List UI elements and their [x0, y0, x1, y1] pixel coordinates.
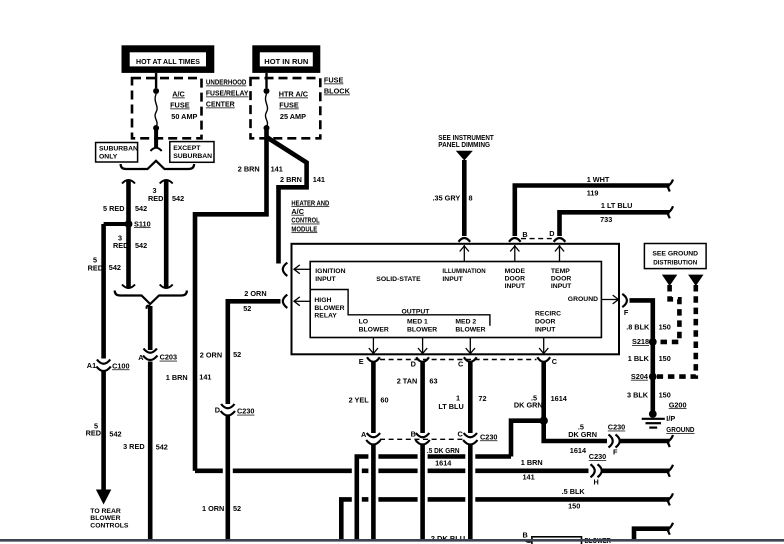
svg-text:1614: 1614 [570, 446, 587, 455]
svg-text:D: D [549, 229, 554, 238]
svg-text:BLOWER: BLOWER [314, 305, 344, 312]
svg-text:1614: 1614 [435, 459, 452, 468]
svg-text:DOOR: DOOR [505, 276, 525, 283]
svg-text:141: 141 [313, 175, 325, 184]
svg-text:.5 BLK: .5 BLK [562, 487, 586, 496]
svg-text:1 BRN: 1 BRN [166, 373, 188, 382]
svg-text:FUSE/RELAY: FUSE/RELAY [206, 89, 249, 98]
svg-text:141: 141 [199, 372, 211, 381]
svg-text:542: 542 [135, 241, 147, 250]
svg-text:A/C: A/C [172, 90, 185, 99]
svg-text:RED: RED [88, 264, 103, 273]
svg-text:RED: RED [113, 241, 128, 250]
svg-text:HTR A/C: HTR A/C [279, 90, 309, 99]
svg-text:B: B [411, 430, 416, 439]
svg-text:52: 52 [243, 304, 251, 313]
svg-text:1 WHT: 1 WHT [587, 175, 610, 184]
svg-text:MODULE: MODULE [291, 224, 317, 233]
svg-text:A: A [361, 430, 367, 439]
svg-text:BLOWER: BLOWER [455, 326, 485, 333]
svg-text:MODE: MODE [505, 268, 526, 275]
svg-text:TO REAR: TO REAR [90, 508, 121, 515]
svg-text:25 AMP: 25 AMP [280, 112, 306, 121]
svg-text:.5 DK GRN: .5 DK GRN [427, 446, 460, 455]
svg-text:5 RED: 5 RED [103, 204, 125, 213]
svg-text:HIGH: HIGH [314, 297, 331, 304]
svg-text:542: 542 [135, 204, 147, 213]
svg-text:BLOWER: BLOWER [359, 326, 389, 333]
svg-text:2 BRN: 2 BRN [280, 175, 302, 184]
svg-text:3 RED: 3 RED [123, 442, 145, 451]
svg-text:BLOCK: BLOCK [324, 87, 351, 96]
svg-text:1 ORN: 1 ORN [202, 504, 224, 513]
svg-text:DOOR: DOOR [551, 276, 571, 283]
svg-text:C203: C203 [160, 353, 177, 362]
svg-text:C230: C230 [589, 452, 606, 461]
svg-text:RECIRC: RECIRC [535, 311, 561, 318]
svg-text:LO: LO [359, 319, 368, 326]
svg-text:A1: A1 [87, 361, 96, 370]
svg-text:HOT IN RUN: HOT IN RUN [264, 57, 308, 66]
svg-text:72: 72 [478, 394, 486, 403]
svg-text:B: B [522, 230, 527, 239]
svg-text:1 BRN: 1 BRN [521, 458, 543, 467]
svg-text:DISTRIBUTION: DISTRIBUTION [653, 260, 697, 267]
svg-text:CONTROLS: CONTROLS [90, 522, 129, 529]
svg-text:C230: C230 [480, 432, 497, 441]
svg-text:RELAY: RELAY [314, 312, 337, 319]
svg-text:150: 150 [659, 390, 671, 399]
svg-text:H: H [594, 477, 599, 486]
svg-text:C: C [552, 357, 558, 366]
svg-text:141: 141 [523, 473, 535, 482]
svg-text:3 BLK: 3 BLK [627, 390, 649, 399]
svg-text:INPUT: INPUT [551, 283, 572, 290]
svg-text:1614: 1614 [551, 394, 568, 403]
svg-text:SUBURBAN: SUBURBAN [173, 153, 212, 160]
svg-text:B: B [523, 531, 528, 540]
svg-text:.8 BLK: .8 BLK [626, 322, 650, 331]
svg-text:DK GRN: DK GRN [514, 401, 543, 410]
svg-text:I/P: I/P [666, 414, 675, 423]
svg-text:DOOR: DOOR [535, 319, 555, 326]
svg-text:RED: RED [148, 194, 163, 203]
svg-text:150: 150 [568, 501, 580, 510]
svg-text:2 TAN: 2 TAN [397, 376, 418, 385]
svg-text:A/C: A/C [291, 207, 304, 216]
svg-text:LT BLU: LT BLU [438, 402, 463, 411]
svg-text:S204: S204 [631, 372, 649, 381]
svg-text:FUSE: FUSE [279, 101, 299, 110]
svg-text:SOLID-STATE: SOLID-STATE [376, 276, 421, 283]
svg-text:ONLY: ONLY [99, 154, 118, 161]
svg-text:.35 GRY: .35 GRY [433, 193, 461, 202]
svg-text:INPUT: INPUT [505, 283, 526, 290]
svg-text:63: 63 [429, 376, 437, 385]
svg-text:C: C [458, 430, 464, 439]
svg-text:GROUND: GROUND [568, 296, 598, 303]
svg-text:OUTPUT: OUTPUT [402, 309, 431, 316]
svg-text:PANEL DIMMING: PANEL DIMMING [438, 140, 490, 149]
svg-text:733: 733 [600, 215, 612, 224]
svg-text:EXCEPT: EXCEPT [173, 145, 201, 152]
svg-text:542: 542 [109, 263, 121, 272]
svg-text:D: D [215, 406, 220, 415]
svg-text:C230: C230 [237, 407, 254, 416]
svg-text:G200: G200 [669, 400, 687, 409]
svg-text:52: 52 [233, 350, 241, 359]
svg-text:50 AMP: 50 AMP [171, 112, 197, 121]
svg-text:GROUND: GROUND [666, 425, 694, 434]
svg-text:CENTER: CENTER [206, 100, 236, 109]
svg-text:141: 141 [271, 165, 283, 174]
svg-text:F: F [613, 447, 618, 456]
svg-text:SEE GROUND: SEE GROUND [652, 251, 698, 258]
svg-text:C100: C100 [112, 361, 129, 370]
svg-text:2 YEL: 2 YEL [349, 395, 370, 404]
svg-text:BLOWER: BLOWER [407, 326, 437, 333]
svg-text:RED: RED [86, 429, 101, 438]
svg-text:2 ORN: 2 ORN [244, 289, 266, 298]
svg-text:FUSE: FUSE [170, 101, 190, 110]
svg-text:S218: S218 [632, 337, 649, 346]
svg-text:542: 542 [172, 194, 184, 203]
svg-text:F: F [624, 308, 629, 317]
svg-text:DK GRN: DK GRN [568, 430, 597, 439]
svg-text:ILLUMINATION: ILLUMINATION [442, 268, 485, 275]
svg-text:SUBURBAN: SUBURBAN [99, 145, 138, 152]
svg-text:HOT AT ALL TIMES: HOT AT ALL TIMES [136, 57, 200, 66]
svg-text:52: 52 [233, 504, 241, 513]
svg-text:150: 150 [659, 354, 671, 363]
svg-text:150: 150 [659, 322, 671, 331]
svg-text:MED 1: MED 1 [407, 319, 428, 326]
svg-text:UNDERHOOD: UNDERHOOD [206, 78, 247, 87]
svg-text:IGNITION: IGNITION [315, 268, 345, 275]
svg-text:1 LT BLU: 1 LT BLU [601, 201, 632, 210]
svg-text:BLOWER: BLOWER [90, 515, 120, 522]
svg-text:INPUT: INPUT [442, 276, 463, 283]
svg-text:542: 542 [156, 443, 168, 452]
svg-text:TEMP: TEMP [551, 268, 570, 275]
svg-text:INPUT: INPUT [535, 326, 556, 333]
svg-text:2 ORN: 2 ORN [200, 350, 222, 359]
svg-text:CONTROL: CONTROL [291, 216, 320, 225]
svg-text:C230: C230 [608, 423, 625, 432]
svg-text:1 BLK: 1 BLK [628, 354, 650, 363]
svg-text:INPUT: INPUT [315, 276, 336, 283]
svg-text:A: A [138, 353, 144, 362]
svg-text:8: 8 [469, 193, 473, 202]
svg-text:D: D [411, 359, 416, 368]
svg-text:2 BRN: 2 BRN [238, 165, 260, 174]
svg-text:MED 2: MED 2 [455, 319, 476, 326]
svg-text:119: 119 [587, 189, 599, 198]
svg-text:542: 542 [109, 430, 121, 439]
svg-text:60: 60 [380, 395, 388, 404]
svg-text:E: E [359, 357, 364, 366]
svg-text:1: 1 [456, 393, 460, 402]
svg-text:C: C [458, 359, 464, 368]
svg-text:FUSE: FUSE [324, 76, 344, 85]
svg-text:S110: S110 [134, 219, 151, 228]
